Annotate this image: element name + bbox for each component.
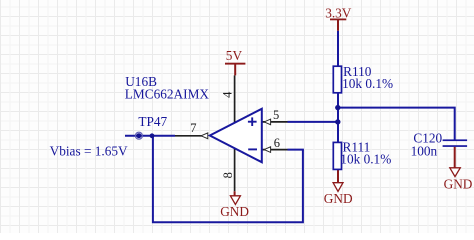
svg-text:TP47: TP47	[138, 114, 167, 129]
svg-text:7: 7	[190, 121, 196, 135]
svg-text:6: 6	[274, 136, 280, 150]
svg-text:10k 0.1%: 10k 0.1%	[342, 76, 393, 91]
svg-text:5V: 5V	[226, 48, 243, 63]
svg-text:5: 5	[273, 108, 279, 122]
svg-text:8: 8	[221, 172, 235, 178]
svg-text:Vbias = 1.65V: Vbias = 1.65V	[50, 143, 128, 158]
svg-text:3.3V: 3.3V	[325, 6, 352, 21]
svg-text:LMC662AIMX: LMC662AIMX	[125, 87, 210, 102]
svg-text:GND: GND	[324, 191, 353, 206]
svg-text:10k 0.1%: 10k 0.1%	[340, 151, 391, 166]
svg-text:GND: GND	[444, 176, 473, 191]
svg-text:100n: 100n	[411, 144, 438, 159]
svg-text:GND: GND	[220, 204, 249, 219]
svg-text:4: 4	[221, 91, 235, 98]
